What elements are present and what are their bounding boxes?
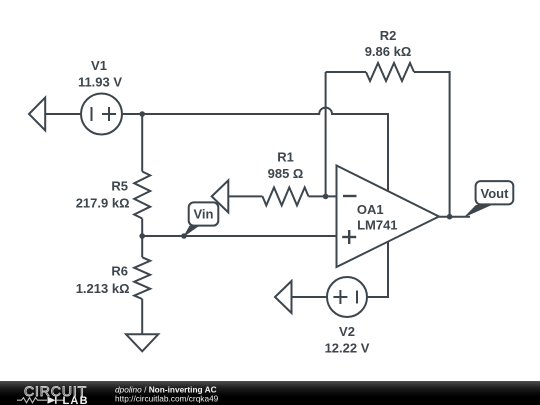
- net label box Vin: [189, 202, 219, 225]
- op-amp OA1: [337, 166, 439, 268]
- resistor R1: [263, 187, 309, 205]
- svg-text:LM741: LM741: [357, 217, 397, 232]
- wire V- pin to V2: [367, 242, 388, 297]
- svg-text:http://circuitlab.com/crqka49: http://circuitlab.com/crqka49: [115, 394, 219, 404]
- port arrow P1 left of V1: [29, 98, 45, 131]
- svg-text:R1: R1: [277, 150, 294, 165]
- svg-text:12.22 V: 12.22 V: [325, 341, 370, 356]
- logo resistor zigzag: [17, 398, 47, 403]
- svg-text:LAB: LAB: [63, 395, 89, 405]
- port arrow P3 left of V2: [275, 281, 292, 313]
- svg-text:9.86 kΩ: 9.86 kΩ: [365, 44, 412, 59]
- wire feedback vertical from R2 left to inverting node: [325, 72, 327, 196]
- resistor R6: [134, 257, 150, 299]
- wire R5 to node Vin: [141, 219, 143, 237]
- wire R1 to inverting input: [309, 195, 337, 197]
- wire V1 to node A: [122, 113, 142, 115]
- wire node Vin down to R6: [141, 236, 143, 257]
- resistor R2: [366, 63, 414, 81]
- junction node Vin: [139, 233, 145, 239]
- svg-text:V1: V1: [91, 58, 107, 73]
- voltage source V1: [81, 94, 122, 135]
- logo diode: [48, 397, 65, 404]
- wire node A to V+ pin with hop over feedback: [142, 108, 388, 191]
- junction inverting node: [323, 194, 329, 200]
- svg-text:R2: R2: [380, 28, 397, 43]
- port arrow P2 left of R1: [212, 180, 229, 212]
- wire output: [439, 216, 470, 218]
- svg-text:R5: R5: [111, 179, 128, 194]
- svg-text:V2: V2: [339, 324, 355, 339]
- op-amp minus input symbol: [343, 195, 357, 197]
- svg-text:985 Ω: 985 Ω: [268, 166, 304, 181]
- svg-text:217.9 kΩ: 217.9 kΩ: [76, 196, 130, 211]
- flag wedge Vin: [181, 226, 199, 239]
- svg-text:R6: R6: [111, 264, 128, 279]
- voltage source V2: [327, 277, 367, 317]
- junction node A: [139, 111, 145, 117]
- wire R2 left lead: [326, 71, 366, 73]
- wire V2 to P3: [292, 296, 328, 298]
- wire R6 to ground: [141, 299, 143, 334]
- footer bar: [0, 381, 540, 405]
- wire P1 to V1: [45, 113, 81, 115]
- wire R2 right down to output: [414, 72, 450, 217]
- junction output node: [447, 214, 453, 220]
- svg-text:OA1: OA1: [357, 202, 384, 217]
- net label box Vout: [476, 181, 514, 204]
- resistor R5: [134, 172, 150, 219]
- flag wedge Vout: [464, 205, 493, 218]
- svg-text:11.93 V: 11.93 V: [78, 75, 122, 90]
- wire node A down to R5: [141, 114, 143, 172]
- svg-text:Vin: Vin: [194, 207, 214, 222]
- svg-text:Vout: Vout: [481, 186, 510, 201]
- svg-text:1.213 kΩ: 1.213 kΩ: [76, 281, 130, 296]
- wire P2 to R1: [228, 195, 262, 197]
- wire node Vin to op-amp plus input: [142, 235, 336, 237]
- op-amp plus input symbol: [342, 230, 356, 244]
- ground: [126, 334, 158, 351]
